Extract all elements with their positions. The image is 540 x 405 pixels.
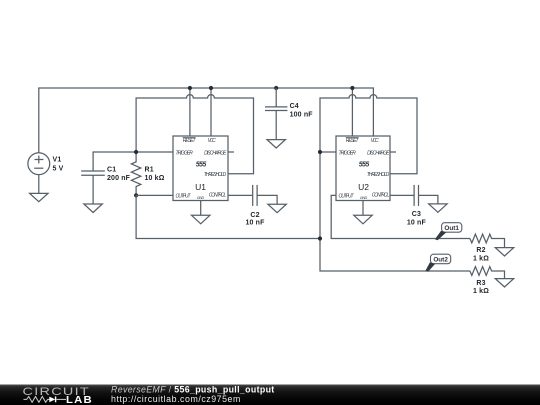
IC U2 555 timer [336,136,390,201]
ground below C4 [267,140,285,148]
U1 pin labels [176,138,228,201]
node U2 trigger junction [318,150,322,154]
ground right of C3 [429,204,447,212]
wire U2 GND [362,201,364,216]
svg-text:THRESHOLD: THRESHOLD [204,172,227,178]
svg-text:Out2: Out2 [433,257,448,264]
svg-text:C4: C4 [290,103,299,110]
svg-text:10 nF: 10 nF [407,220,427,227]
node rail junction [318,236,322,240]
svg-text:DISCHARGE: DISCHARGE [204,151,227,157]
svg-text:V1: V1 [53,157,62,164]
ground right of C2 [268,204,286,213]
wire U1 VCC drop [210,88,212,136]
svg-text:http://circuitlab.com/cz975em: http://circuitlab.com/cz975em [111,394,241,404]
svg-text:RESET: RESET [183,138,197,144]
svg-text:VCC: VCC [371,138,380,144]
svg-text:RESET: RESET [346,138,360,144]
svg-text:TRIGGER: TRIGGER [339,151,357,157]
svg-text:VCC: VCC [208,138,217,144]
svg-text:555: 555 [359,162,370,169]
svg-text:OUTPUT: OUTPUT [176,193,192,199]
ground below V1 [30,193,48,201]
svg-text:R2: R2 [476,247,485,254]
svg-text:TRIGGER: TRIGGER [176,151,194,157]
wire U2 trigger down to rail and Out2 [320,152,470,271]
node U1 output junction [134,193,138,197]
svg-text:5 V: 5 V [53,165,64,172]
svg-text:U1: U1 [195,182,206,192]
wire U2 OUTPUT down to Out1 wire [331,195,470,238]
node rail junction at C4 [274,86,278,90]
svg-text:C3: C3 [412,211,421,218]
U1 reset overline [183,137,196,139]
svg-text:R1: R1 [145,167,154,174]
svg-text:U2: U2 [358,182,369,192]
wire U1 OUTPUT [136,194,173,196]
logo CIRCUIT LAB [23,385,93,405]
wire U1 DISCHARGE stub [228,151,234,153]
wire U1 RESET drop [189,88,191,136]
resistor R1 [131,152,140,195]
node rail junction at U1 VCC [209,86,213,90]
wire U2 trigger-threshold link with hops [320,95,417,174]
svg-text:CONTROL: CONTROL [372,193,390,199]
node rail junction at U1 RESET [188,86,192,90]
svg-text:Out1: Out1 [444,225,459,232]
resistor R3 [470,267,505,279]
svg-text:100 nF: 100 nF [290,112,314,119]
wire C1 top to U1 TRIGGER [93,152,173,171]
node U1 trigger junction [134,150,138,154]
svg-text:GND: GND [197,196,205,200]
svg-text:10 nF: 10 nF [245,219,265,226]
wire U2 DISCHARGE stub [390,151,396,153]
U2 reset overline [346,137,359,139]
wire U1 output rail to node [136,195,320,238]
wire U2 TRIGGER [320,151,336,153]
svg-text:OUTPUT: OUTPUT [339,193,355,199]
capacitor C4 [265,88,287,140]
svg-text:ReverseEMF / 556_push_pull_out: ReverseEMF / 556_push_pull_output [111,384,275,394]
svg-text:C1: C1 [107,167,116,174]
ground below C1 [84,204,102,213]
ground below U2 [354,215,372,224]
capacitor C2 [253,185,277,206]
ground below U1 [192,215,210,224]
wire U2 CONTROL to C3 [390,194,414,196]
wire U1 GND [200,201,202,216]
svg-text:555: 555 [196,162,207,169]
svg-text:CONTROL: CONTROL [209,193,227,199]
wire U1 trigger-threshold link with hops [136,95,253,174]
U2 pin labels [339,138,391,201]
capacitor C3 [414,185,438,206]
svg-text:10 kΩ: 10 kΩ [145,175,165,182]
svg-text:GND: GND [360,196,368,200]
IC U1 555 timer [173,136,228,201]
svg-text:C2: C2 [250,212,259,219]
ground right of R3 [495,279,513,287]
svg-text:200 nF: 200 nF [107,175,131,182]
component value labels [53,103,490,295]
svg-text:DISCHARGE: DISCHARGE [367,151,390,157]
wire U2 RESET drop [351,88,353,136]
wire top VCC rail from V1 to U2 VCC [39,88,374,153]
node rail junction at U2 RESET [350,86,354,90]
ground right of R2 [495,248,513,256]
flag Out1 [435,223,462,241]
svg-text:THRESHOLD: THRESHOLD [367,172,390,178]
svg-text:R3: R3 [476,280,485,287]
flag Out2 [425,254,450,272]
svg-text:1 kΩ: 1 kΩ [473,288,489,295]
svg-text:1 kΩ: 1 kΩ [473,255,489,262]
capacitor C1 [81,171,105,204]
resistor R2 [470,234,505,248]
wire U1 CONTROL to C2 [228,194,253,196]
voltage source V1 [28,153,50,193]
svg-text:LAB: LAB [66,395,93,405]
